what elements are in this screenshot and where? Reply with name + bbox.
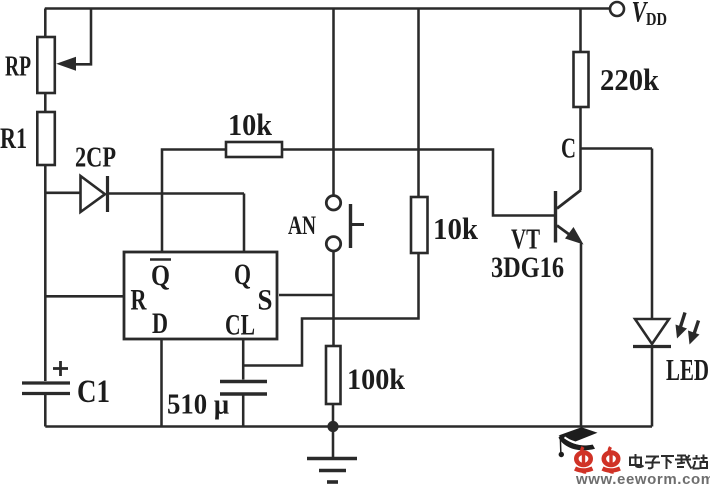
svg-text:2CP: 2CP (75, 142, 116, 174)
svg-text:DD: DD (646, 9, 667, 29)
svg-text:CL: CL (225, 309, 255, 342)
svg-text:10k: 10k (228, 107, 273, 142)
svg-text:R1: R1 (0, 122, 27, 155)
svg-text:RP: RP (5, 51, 31, 83)
svg-text:AN: AN (288, 211, 316, 240)
svg-text:LED: LED (666, 352, 709, 387)
svg-text:3DG16: 3DG16 (491, 251, 564, 284)
svg-text:Q: Q (234, 258, 251, 291)
svg-text:220k: 220k (600, 62, 660, 97)
svg-text:Q: Q (151, 259, 170, 292)
svg-text:D: D (152, 307, 168, 340)
svg-text:510 μ: 510 μ (167, 390, 229, 421)
svg-text:S: S (258, 284, 273, 317)
svg-text:10k: 10k (433, 211, 479, 246)
svg-text:100k: 100k (347, 363, 405, 396)
svg-text:C: C (561, 133, 576, 165)
svg-text:C1: C1 (77, 374, 110, 410)
svg-text:R: R (131, 284, 147, 317)
svg-text:www.eeworm.com: www.eeworm.com (575, 471, 710, 485)
